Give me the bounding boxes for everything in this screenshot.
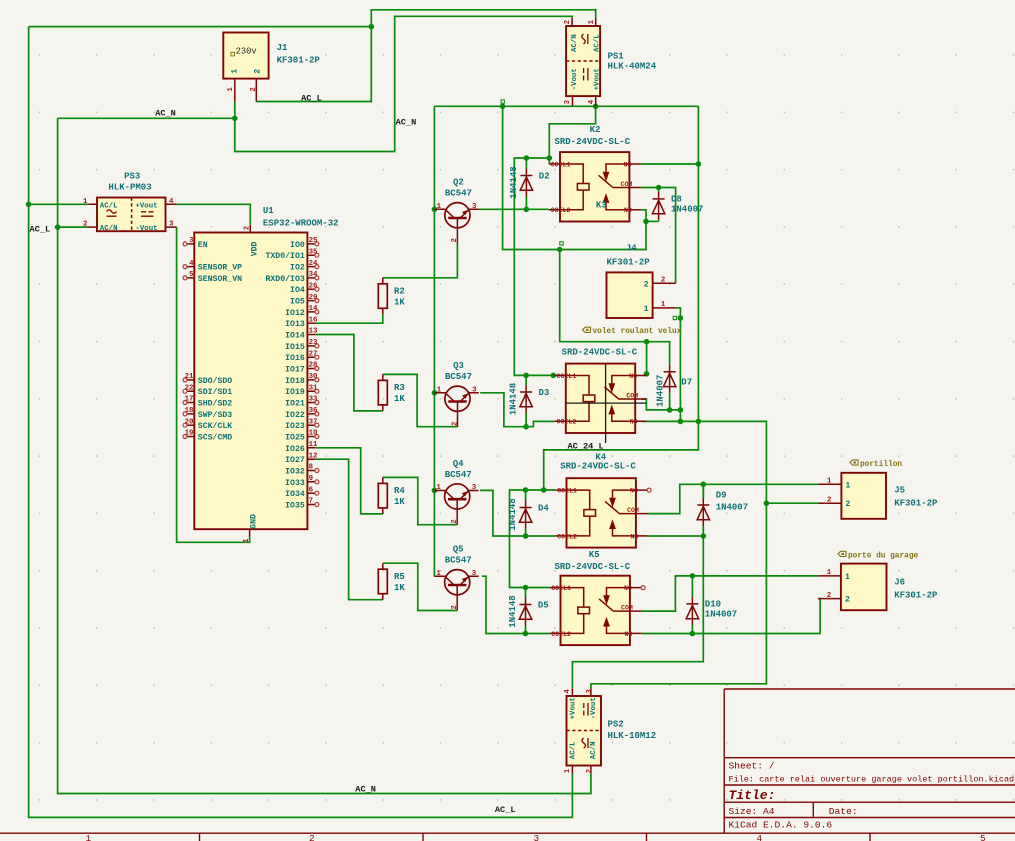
svg-text:7: 7 xyxy=(309,498,313,506)
svg-text:D2: D2 xyxy=(539,172,550,182)
svg-text:HLK-10M12: HLK-10M12 xyxy=(608,731,657,741)
PS3 dashes xyxy=(141,212,154,216)
wire IO26 to R4 bottom xyxy=(315,448,383,514)
svg-text:1: 1 xyxy=(86,833,92,841)
svg-text:IO2: IO2 xyxy=(290,264,305,273)
svg-text:Title:: Title: xyxy=(729,788,776,803)
wire AC_L top segment xyxy=(29,26,372,28)
wire Q3 emitter to K3 COIL2 xyxy=(480,393,554,427)
svg-text:27: 27 xyxy=(309,350,318,358)
connector J5 xyxy=(841,473,886,519)
svg-text:2: 2 xyxy=(309,833,315,841)
wire K4 COM to J5 pin1 xyxy=(647,484,819,513)
svg-text:AC/N: AC/N xyxy=(100,225,118,233)
wire K5 COM to J6 pin1 xyxy=(641,576,818,611)
wire R3 top to Q3 base xyxy=(383,374,458,426)
svg-text:31: 31 xyxy=(309,384,318,392)
svg-text:4: 4 xyxy=(757,833,763,841)
svg-text:PS3: PS3 xyxy=(124,171,140,181)
svg-text:D8: D8 xyxy=(671,194,682,204)
svg-text:AC/N: AC/N xyxy=(590,741,598,759)
svg-text:SRD-24VDC-SL-C: SRD-24VDC-SL-C xyxy=(555,562,631,572)
U1 right pin unconnected circles xyxy=(315,242,319,507)
wire R2 top to Q2 base xyxy=(383,244,458,278)
wire PS3 pin1 to AC_L rail xyxy=(29,203,89,205)
PS1 dashes xyxy=(584,68,588,81)
svg-text:SRD-24VDC-SL-C: SRD-24VDC-SL-C xyxy=(560,462,636,472)
svg-text:IO23: IO23 xyxy=(285,422,305,431)
wire AC_N from J1 pin1 to PS1 pin2 xyxy=(235,16,572,151)
wire K2 COM to J4 pin2 xyxy=(641,188,676,284)
wire K3 NO to PS2 -Vout xyxy=(591,421,767,688)
svg-text:portillon: portillon xyxy=(860,461,902,469)
wire K2 NC to 24V rail xyxy=(641,163,699,165)
svg-text:AC_N: AC_N xyxy=(155,109,176,119)
svg-text:-Vout: -Vout xyxy=(571,68,579,90)
svg-text:16: 16 xyxy=(309,316,318,324)
svg-text:6: 6 xyxy=(309,486,314,494)
resistor R4 xyxy=(378,477,387,514)
PS3 pins xyxy=(88,204,176,227)
svg-text:1N4148: 1N4148 xyxy=(509,166,519,198)
svg-text:IO19: IO19 xyxy=(285,388,305,397)
svg-text:BC547: BC547 xyxy=(445,470,472,480)
PS1 pins xyxy=(572,18,596,107)
svg-text:5: 5 xyxy=(189,271,194,279)
U1 GND pin xyxy=(249,529,251,537)
svg-text:1N4007: 1N4007 xyxy=(705,609,737,619)
svg-text:U1: U1 xyxy=(263,206,274,216)
wire IO13 to R2 bottom xyxy=(315,314,383,323)
svg-text:Q2: Q2 xyxy=(453,178,464,188)
wire collector rail to 24V xyxy=(434,105,502,107)
U1 VDD pin xyxy=(249,225,251,233)
svg-text:IO4: IO4 xyxy=(290,286,305,295)
connector J4 xyxy=(607,272,653,318)
svg-text:SENSOR_VP: SENSOR_VP xyxy=(198,264,242,273)
svg-text:SHD/SD2: SHD/SD2 xyxy=(198,399,232,409)
relay K3 SRD-24VDC-SL-C xyxy=(555,364,647,433)
svg-text:3: 3 xyxy=(534,833,540,841)
diode D4 1N4148 xyxy=(519,501,531,529)
svg-text:26: 26 xyxy=(309,282,318,290)
wire collector rail Q2-Q5 xyxy=(433,106,435,576)
svg-text:IO26: IO26 xyxy=(285,445,305,454)
PS1 sine symbol xyxy=(582,34,588,44)
svg-text:Q3: Q3 xyxy=(453,361,464,371)
wire PS1 Vout horizontal xyxy=(503,105,699,107)
svg-text:J1: J1 xyxy=(277,43,288,53)
svg-text:9: 9 xyxy=(309,475,313,483)
svg-text:10: 10 xyxy=(309,430,318,438)
svg-text:Size: A4: Size: A4 xyxy=(729,806,775,817)
svg-text:SCK/CLK: SCK/CLK xyxy=(198,421,232,431)
wire R5 top to Q5 base xyxy=(383,563,457,610)
svg-text:2: 2 xyxy=(254,69,263,74)
svg-text:porte du garage: porte du garage xyxy=(848,552,919,560)
U1 right pin stubs xyxy=(307,244,315,505)
svg-text:BC547: BC547 xyxy=(445,189,472,199)
svg-text:11: 11 xyxy=(309,441,318,449)
diode D8 1N4007 xyxy=(652,192,664,220)
svg-text:13: 13 xyxy=(309,328,318,336)
svg-text:J4: J4 xyxy=(626,243,637,253)
svg-text:23: 23 xyxy=(309,339,318,347)
svg-text:33: 33 xyxy=(309,396,318,404)
PS3 sine symbol xyxy=(107,210,117,216)
svg-text:1: 1 xyxy=(661,301,666,309)
svg-text:SRD-24VDC-SL-C: SRD-24VDC-SL-C xyxy=(562,348,638,358)
svg-text:22: 22 xyxy=(185,384,194,392)
svg-text:AC_L: AC_L xyxy=(495,805,516,815)
svg-text:2: 2 xyxy=(661,277,665,285)
wire to K3 NC xyxy=(646,342,648,376)
svg-text:-Vout: -Vout xyxy=(135,225,157,233)
transistor Q2 BC547 xyxy=(435,203,479,244)
wire K4 COIL1 to K5 COIL1 xyxy=(510,490,556,588)
svg-text:1: 1 xyxy=(231,69,240,74)
svg-text:35: 35 xyxy=(309,248,318,256)
svg-text:IO14: IO14 xyxy=(285,332,305,341)
wire IO27 to R5 bottom xyxy=(315,459,383,600)
svg-text:SDO/SDO: SDO/SDO xyxy=(198,376,232,386)
wire D8 anode link xyxy=(646,220,659,222)
svg-text:KF301-2P: KF301-2P xyxy=(607,258,651,268)
wire IO14 to R3 bottom xyxy=(315,335,383,411)
svg-text:AC_24_L: AC_24_L xyxy=(568,441,604,451)
J1 pins xyxy=(235,79,256,102)
resistor R2 xyxy=(378,278,387,315)
svg-text:1: 1 xyxy=(243,538,251,543)
svg-text:PS2: PS2 xyxy=(608,719,624,729)
wire K5 NO to J6 pin2 xyxy=(641,599,820,634)
svg-text:volet roulant velux: volet roulant velux xyxy=(593,328,682,336)
relay K4 SRD-24VDC-SL-C xyxy=(555,478,647,547)
svg-text:IO32: IO32 xyxy=(285,468,305,477)
svg-text:18: 18 xyxy=(185,407,194,415)
wire J4 pin2 staircase to D7 xyxy=(560,250,670,365)
wire D3 links xyxy=(525,375,527,426)
diode D5 1N4148 xyxy=(519,598,531,626)
PS2 sine symbol xyxy=(582,738,588,748)
svg-text:D4: D4 xyxy=(538,504,549,514)
svg-text:14: 14 xyxy=(309,305,318,313)
svg-text:1: 1 xyxy=(827,569,832,577)
wire K2 COIL1 to K3 COIL1 xyxy=(514,158,554,375)
transistor Q4 BC547 xyxy=(434,484,478,525)
diode D10 1N4007 xyxy=(686,597,698,625)
wire R4 top to Q4 base xyxy=(383,477,457,524)
relay K5 SRD-24VDC-SL-C xyxy=(549,576,641,645)
svg-text:1N4148: 1N4148 xyxy=(508,595,518,627)
wire PS3 pin2 to AC_N rail xyxy=(58,226,89,228)
svg-text:-Vout: -Vout xyxy=(590,697,598,719)
svg-text:IO25: IO25 xyxy=(285,434,305,443)
svg-text:1: 1 xyxy=(845,573,850,582)
svg-text:21: 21 xyxy=(185,373,194,381)
svg-text:IO13: IO13 xyxy=(285,320,305,329)
PS2 dashes xyxy=(584,703,588,716)
svg-text:3: 3 xyxy=(564,99,572,104)
svg-text:12: 12 xyxy=(309,452,318,460)
svg-text:25: 25 xyxy=(309,237,318,245)
resistor R5 xyxy=(378,563,387,600)
svg-text:IO12: IO12 xyxy=(285,309,305,318)
svg-text:D10: D10 xyxy=(705,599,721,609)
svg-text:SCS/CMD: SCS/CMD xyxy=(198,433,232,443)
svg-text:IO5: IO5 xyxy=(290,298,305,307)
wire K4 NO to D9 xyxy=(647,535,703,537)
svg-text:IO22: IO22 xyxy=(285,411,305,420)
svg-text:AC_N: AC_N xyxy=(396,118,417,128)
svg-text:Q5: Q5 xyxy=(453,545,464,555)
diode D3 1N4148 xyxy=(520,385,532,413)
svg-text:1N4007: 1N4007 xyxy=(671,204,703,214)
dangling end squares xyxy=(501,100,677,320)
svg-text:1: 1 xyxy=(827,478,832,486)
svg-text:IO0: IO0 xyxy=(290,241,305,250)
svg-text:PS1: PS1 xyxy=(608,52,625,62)
svg-text:File: carte relai ouverture ga: File: carte relai ouverture garage volet… xyxy=(729,774,1015,784)
svg-text:4: 4 xyxy=(189,260,194,268)
svg-text:2: 2 xyxy=(827,592,831,600)
svg-text:230v: 230v xyxy=(236,47,257,57)
svg-text:3: 3 xyxy=(586,689,594,694)
svg-text:AC_L: AC_L xyxy=(30,225,51,235)
PS2 pins xyxy=(572,688,591,773)
svg-text:1K: 1K xyxy=(394,497,405,507)
svg-text:1: 1 xyxy=(564,768,572,773)
connector J6 xyxy=(841,564,887,611)
wire Q5 emitter to K5 COIL2 xyxy=(482,576,549,633)
svg-text:D3: D3 xyxy=(539,388,550,398)
wire AC_24_L (black) xyxy=(566,364,646,443)
svg-text:HLK-PM03: HLK-PM03 xyxy=(108,182,151,192)
svg-text:3: 3 xyxy=(169,221,174,229)
wire D9 top link xyxy=(702,484,704,498)
svg-text:2: 2 xyxy=(845,596,850,605)
sheet border ruler line xyxy=(0,832,1015,834)
svg-text:19: 19 xyxy=(185,430,194,438)
wire K3 COM to J4 pin1 rail xyxy=(641,399,680,410)
svg-text:K5: K5 xyxy=(589,550,600,560)
svg-text:IO27: IO27 xyxy=(285,456,305,465)
svg-text:20: 20 xyxy=(185,418,194,426)
diode D9 1N4007 xyxy=(697,498,709,526)
wire Q2 emitter to K2 COIL2 xyxy=(479,208,549,210)
svg-text:1: 1 xyxy=(588,19,596,24)
wire J5 pin2 to PS2 rail xyxy=(766,502,818,504)
svg-text:Q4: Q4 xyxy=(453,459,464,469)
svg-text:30: 30 xyxy=(309,373,318,381)
svg-text:1K: 1K xyxy=(394,297,405,307)
svg-text:34: 34 xyxy=(309,271,318,279)
svg-text:IO35: IO35 xyxy=(285,502,305,511)
svg-text:RXD0/IO3: RXD0/IO3 xyxy=(265,274,304,284)
power module PS3 xyxy=(97,198,166,232)
diode D2 1N4148 xyxy=(520,169,532,197)
hierarchical label portillon xyxy=(850,460,858,465)
svg-text:2: 2 xyxy=(244,226,252,230)
svg-text:2: 2 xyxy=(250,87,258,91)
svg-text:J6: J6 xyxy=(894,578,905,588)
IC U1 ESP32-WROOM-32 body xyxy=(194,233,307,530)
connector J1 xyxy=(223,33,268,79)
svg-text:KF301-2P: KF301-2P xyxy=(894,498,938,508)
U1 left pin stubs xyxy=(187,244,194,437)
svg-text:1: 1 xyxy=(644,305,649,314)
svg-text:SWP/SD3: SWP/SD3 xyxy=(198,410,232,420)
svg-text:1N4148: 1N4148 xyxy=(509,383,519,415)
svg-text:2: 2 xyxy=(644,280,649,289)
svg-text:2: 2 xyxy=(586,769,594,773)
wire D10 anode xyxy=(691,625,693,634)
svg-text:Sheet: /: Sheet: / xyxy=(729,761,775,772)
svg-text:D9: D9 xyxy=(716,491,727,501)
svg-text:2: 2 xyxy=(845,500,850,509)
svg-text:AC/L: AC/L xyxy=(100,202,118,210)
svg-text:BC547: BC547 xyxy=(445,372,472,382)
wire D5 links xyxy=(525,588,527,634)
wire D10 cathode xyxy=(691,576,693,597)
svg-text:IO21: IO21 xyxy=(285,400,305,409)
wire D7 anode to K3 COM xyxy=(669,393,671,410)
transistor Q5 BC547 xyxy=(434,570,478,611)
svg-text:TXD0/IO1: TXD0/IO1 xyxy=(265,251,304,261)
svg-text:+Vout: +Vout xyxy=(594,68,602,90)
K4 NC unconnected xyxy=(647,488,651,492)
resistor R3 xyxy=(378,374,387,411)
svg-text:IO17: IO17 xyxy=(285,366,305,375)
svg-text:28: 28 xyxy=(309,362,318,370)
svg-text:37: 37 xyxy=(309,418,318,426)
svg-text:1: 1 xyxy=(83,198,88,206)
svg-text:24: 24 xyxy=(309,260,318,268)
svg-text:HLK-40M24: HLK-40M24 xyxy=(608,61,657,71)
wire AC_L left rail xyxy=(29,27,573,818)
svg-text:AC/N: AC/N xyxy=(571,34,579,52)
wire AC_L from J1 pin2 to PS1 pin1 xyxy=(256,10,595,102)
svg-text:1K: 1K xyxy=(394,394,405,404)
svg-text:IO16: IO16 xyxy=(285,354,305,363)
svg-text:+Vout: +Vout xyxy=(570,697,578,719)
svg-text:5: 5 xyxy=(980,833,986,841)
svg-text:AC/L: AC/L xyxy=(570,741,578,759)
svg-text:KF301-2P: KF301-2P xyxy=(277,56,321,66)
hierarchical label volet roulant velux xyxy=(583,327,591,332)
svg-text:1: 1 xyxy=(227,87,235,92)
svg-text:R4: R4 xyxy=(394,486,405,496)
svg-text:SRD-24VDC-SL-C: SRD-24VDC-SL-C xyxy=(555,137,631,147)
U1 left pin unconnected circles xyxy=(183,242,187,439)
K5 NC unconnected xyxy=(641,586,645,590)
svg-text:2: 2 xyxy=(564,20,572,24)
wire D8 links xyxy=(658,188,660,222)
wire D4 links xyxy=(525,490,527,536)
svg-text:R3: R3 xyxy=(394,383,405,393)
svg-text:SDI/SD1: SDI/SD1 xyxy=(198,387,232,397)
wire 24V rail right drop xyxy=(544,106,699,490)
svg-text:1N4007: 1N4007 xyxy=(655,375,665,407)
svg-text:4: 4 xyxy=(564,689,572,694)
relay K2 SRD-24VDC-SL-C xyxy=(549,152,641,221)
title block frame xyxy=(724,689,1015,833)
svg-text:+Vout: +Vout xyxy=(135,202,157,210)
svg-text:IO34: IO34 xyxy=(285,490,305,499)
svg-text:D7: D7 xyxy=(681,378,692,388)
svg-text:IO15: IO15 xyxy=(285,343,305,352)
svg-text:AC_N: AC_N xyxy=(355,784,376,794)
svg-text:J5: J5 xyxy=(894,486,905,496)
svg-text:3: 3 xyxy=(189,237,194,245)
hierarchical label porte du garage xyxy=(838,551,846,556)
wire PS1 to K2 COIL1 xyxy=(549,106,595,164)
wire PS3 +Vout to U1 VDD xyxy=(177,204,251,225)
svg-text:2: 2 xyxy=(83,221,87,229)
diode D7 1N4007 xyxy=(663,365,675,393)
svg-text:1N4148: 1N4148 xyxy=(508,498,518,530)
svg-text:4: 4 xyxy=(588,99,596,104)
svg-text:BC547: BC547 xyxy=(445,556,472,566)
wire J4 pin1 down xyxy=(675,308,680,422)
svg-text:R2: R2 xyxy=(394,287,405,297)
svg-text:29: 29 xyxy=(309,294,318,302)
svg-text:AC_L: AC_L xyxy=(301,94,322,104)
svg-text:K3: K3 xyxy=(596,201,607,211)
svg-text:36: 36 xyxy=(309,407,318,415)
svg-text:1: 1 xyxy=(845,481,850,490)
svg-text:17: 17 xyxy=(185,396,194,404)
transistor Q3 BC547 xyxy=(435,386,479,427)
wire AC_N top horizontal xyxy=(58,117,235,119)
wire D9 rail to PS2 +Vout xyxy=(572,484,703,688)
svg-text:AC/L: AC/L xyxy=(594,34,602,52)
svg-text:D5: D5 xyxy=(538,601,549,611)
svg-text:GND: GND xyxy=(250,514,259,529)
svg-text:KF301-2P: KF301-2P xyxy=(894,590,938,600)
svg-text:IO33: IO33 xyxy=(285,479,305,488)
svg-text:K2: K2 xyxy=(590,125,601,135)
svg-text:IO18: IO18 xyxy=(285,377,305,386)
svg-text:8: 8 xyxy=(309,464,314,472)
svg-text:VDD: VDD xyxy=(250,241,259,256)
power module PS2 xyxy=(567,696,602,766)
svg-text:1K: 1K xyxy=(394,583,405,593)
svg-text:ESP32-WROOM-32: ESP32-WROOM-32 xyxy=(263,219,339,229)
svg-text:KiCad E.D.A. 9.0.6: KiCad E.D.A. 9.0.6 xyxy=(729,819,833,830)
svg-text:4: 4 xyxy=(169,198,174,206)
wire PS3 -Vout to U1 GND xyxy=(177,227,250,542)
svg-text:2: 2 xyxy=(827,496,831,504)
svg-text:R5: R5 xyxy=(394,572,405,582)
power module PS1 xyxy=(566,26,600,96)
ruler tick marks xyxy=(200,833,871,841)
svg-text:SENSOR_VN: SENSOR_VN xyxy=(198,275,242,284)
wire 24V to K2 NO and D8 xyxy=(503,106,646,249)
wire AC_N left rail xyxy=(58,118,591,793)
svg-text:Date:: Date: xyxy=(829,806,858,817)
wire Q4 emitter to K4 COIL2 xyxy=(480,490,555,536)
svg-text:EN: EN xyxy=(198,241,208,250)
svg-text:1N4007: 1N4007 xyxy=(716,503,748,513)
wire D2 links xyxy=(525,158,527,209)
